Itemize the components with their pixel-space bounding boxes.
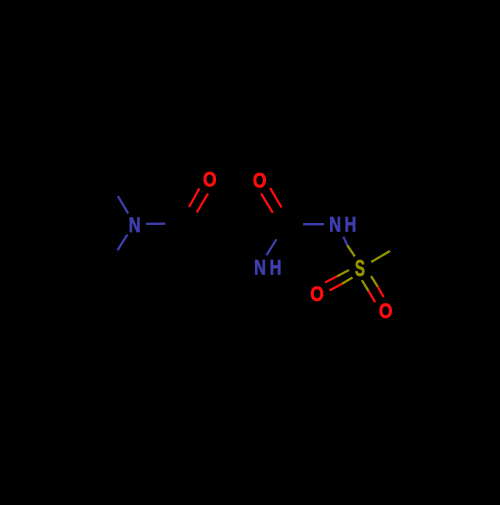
svg-text:N: N (329, 213, 341, 236)
wire S8=O10 double bond line a red half (369, 291, 376, 302)
svg-text:N: N (129, 213, 141, 236)
wire C2=O3 double bond line a (red half) (189, 188, 199, 207)
wire S8=O10 double bond line a yellow half (362, 280, 369, 291)
svg-text:O: O (379, 300, 393, 323)
svg-text:S: S (355, 256, 365, 282)
wire N7-S8 bond yellow half (347, 245, 355, 256)
wire N1-C2 amide bond (blue half) (146, 223, 165, 225)
wire C2=O3 double bond line b (red half) (197, 194, 208, 213)
svg-text:H: H (270, 256, 282, 279)
wire N1 ethyl bond lower (blue half) (118, 235, 128, 251)
svg-text:N: N (254, 256, 266, 279)
svg-text:O: O (310, 284, 324, 307)
wire S8=O9 double bond line a yellow half (337, 270, 349, 276)
wire S8=O9 double bond line b yellow half (342, 278, 353, 284)
svg-text:O: O (203, 169, 217, 192)
wire C4-N6 bond (blue half) (267, 239, 277, 255)
wire S8=O10 double bond line b yellow half (371, 276, 378, 287)
wire S8-C11 bond (yellow half) (371, 251, 390, 262)
wire N7-S8 bond blue half (343, 237, 347, 246)
wire C4-N7 bond (blue half) (303, 223, 324, 225)
wire S8=O9 double bond line b red half (330, 284, 342, 291)
wire C4=O5 double bond line b (red half) (261, 193, 273, 212)
wire C4=O5 double bond line a (red half) (270, 188, 281, 207)
wire S8=O10 double bond line b red half (378, 287, 384, 297)
svg-text:H: H (344, 213, 356, 236)
wire N1 ethyl bond upper (blue half) (118, 196, 128, 213)
wire S8=O9 double bond line a red half (325, 276, 337, 282)
svg-text:O: O (253, 170, 267, 193)
